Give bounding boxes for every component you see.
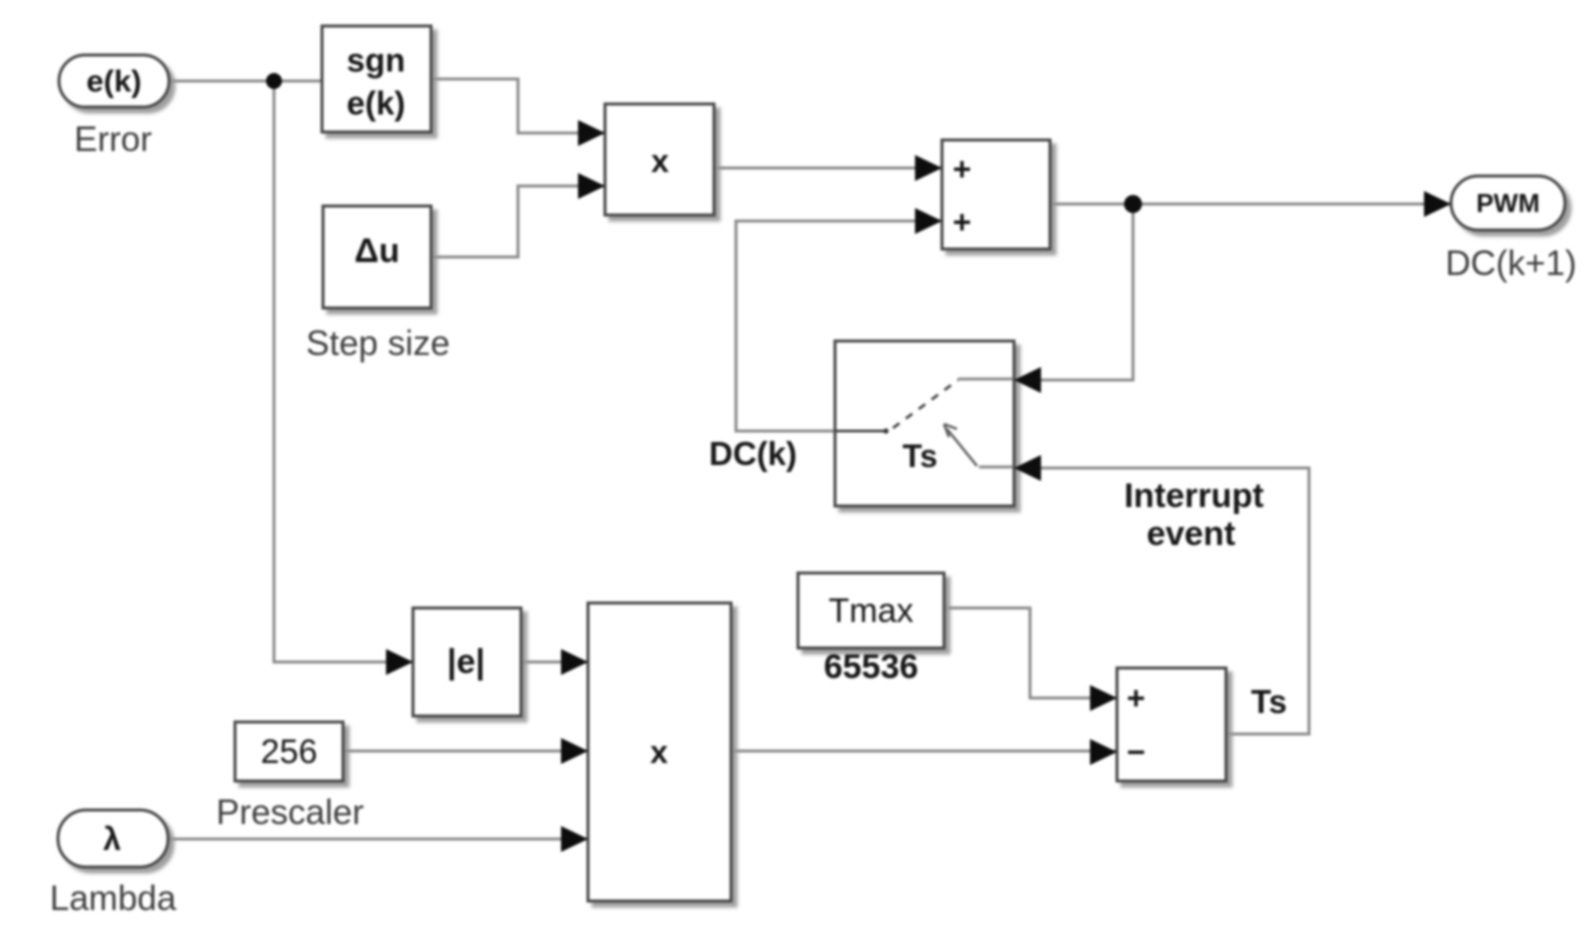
block switch Ts [835,341,1014,506]
inport e(k) [59,55,169,107]
wire switch out to sum1 in2 [736,221,942,431]
block sum1 [942,140,1050,249]
label Lambda [50,879,177,918]
junction node after sum1 [1124,195,1142,213]
wire e(k) branch down to |e| [274,81,413,662]
arrowhead switch in2 [1014,455,1041,481]
arrowhead sum1 in1 [915,155,942,181]
junction node after e(k) [266,73,282,89]
wire product1 to sum1 in1 [714,167,942,170]
wire 256 to product2 in2 [343,750,588,753]
arrowhead switch in1 [1014,367,1041,393]
svg-text:event: event [1147,515,1236,553]
block constant 256 [235,722,343,781]
arrowhead product2 in1 [561,649,588,675]
inport lambda [58,810,168,867]
svg-text:Ts: Ts [903,438,938,474]
arrowhead sum1 in2 [915,208,942,234]
wire |e| to product2 in1 [521,661,588,664]
wire lambda to product2 in3 [168,838,588,841]
arrowhead PWM in [1424,191,1451,217]
svg-text:DC(k): DC(k) [709,435,797,472]
arrowhead product1 in1 [578,120,605,146]
svg-text:x: x [650,734,668,770]
block sum2 [1117,668,1226,781]
label Prescaler [216,793,364,832]
svg-text:Lambda: Lambda [50,879,177,918]
wire Tmax to sum2 plus [944,608,1117,698]
svg-text:Interrupt: Interrupt [1124,477,1264,515]
svg-text:Ts: Ts [1251,683,1287,720]
wire branch sum1 output to switch in1 [1014,204,1133,380]
svg-text:−: − [1127,734,1146,770]
svg-text:Prescaler: Prescaler [216,793,364,832]
label Interrupt event [1124,477,1264,553]
label Error [74,120,152,159]
svg-text:e(k): e(k) [347,85,406,122]
wire sum1 to PWM [1050,203,1451,206]
svg-text:λ: λ [103,821,121,857]
block step size Du [323,206,431,308]
label 65536 [824,648,919,686]
arrowhead product2 in2 [561,738,588,764]
wire sum2 Ts to switch in2 [1014,468,1309,734]
label DC(k) [709,435,797,472]
wire product2 to sum2 minus [731,750,1117,753]
label Ts [1251,683,1287,720]
block constant Tmax [798,573,944,648]
arrowhead abs in [386,649,413,675]
label Step size [306,324,450,363]
block abs |e| [413,608,521,716]
wire sgn to product1 in1 [431,79,605,133]
block sgn e(k) [322,26,431,132]
svg-text:x: x [651,143,669,179]
svg-text:+: + [953,204,972,240]
arrowhead product2 in3 [561,826,588,852]
svg-text:PWM: PWM [1476,188,1540,218]
wire Du to product1 in2 [431,186,605,257]
block product1 x [605,104,714,215]
arrowhead product1 in2 [578,173,605,199]
wire e(k) to sgn [169,80,322,83]
svg-text:DC(k+1): DC(k+1) [1445,244,1576,283]
svg-text:65536: 65536 [824,648,919,686]
svg-text:Tmax: Tmax [829,592,914,630]
outport PWM [1451,176,1565,230]
svg-text:|e|: |e| [447,643,485,681]
svg-text:Step size: Step size [306,324,450,363]
label DC(k+1) [1445,244,1576,283]
svg-text:sgn: sgn [347,42,406,79]
svg-text:+: + [1127,680,1146,716]
svg-text:Error: Error [74,120,152,159]
svg-text:e(k): e(k) [86,64,141,99]
arrowhead sum2 plus [1090,685,1117,711]
block product2 x [588,603,731,901]
svg-text:Δu: Δu [354,232,399,270]
svg-text:+: + [953,151,972,187]
arrowhead sum2 minus [1090,739,1117,765]
svg-text:256: 256 [261,733,318,771]
